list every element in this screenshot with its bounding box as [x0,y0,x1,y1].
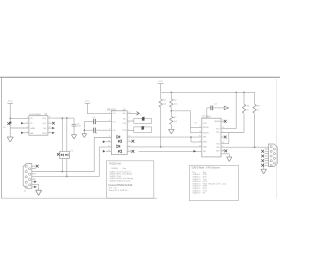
svg-text:NC: NC [43,128,47,130]
svg-text:RIN: RIN [203,142,207,144]
svg-text:3: 3 [27,127,28,129]
svg-text:T2O: T2O [216,132,220,134]
svg-text:T1O: T1O [216,128,220,130]
svg-text:2: 2 [27,122,28,124]
svg-text:R2I: R2I [216,147,220,149]
svg-text:1: 1 [27,117,28,119]
svg-text:Signal Ground: Signal Ground [118,180,131,182]
svg-text:6: 6 [128,122,129,124]
svg-text:T2O: T2O [122,130,126,132]
svg-text:VCC: VCC [158,81,163,83]
svg-text:VI-: VI- [30,123,33,125]
svg-text:T1O: T1O [122,123,126,125]
svg-text:SUB-D: SUB-D [111,168,118,170]
svg-text:1: 1 [109,112,110,114]
svg-text:MAX232: MAX232 [107,108,117,111]
svg-text:1: 1 [140,115,141,117]
svg-text:11: 11 [108,145,110,147]
svg-text:VCC: VCC [203,123,208,125]
svg-text:VCC: VCC [85,101,90,103]
svg-text:VO-: VO- [43,123,47,125]
svg-text:R1I: R1I [216,143,220,145]
svg-text:14: 14 [222,127,224,129]
svg-text:10k: 10k [174,104,177,106]
svg-text:GND: GND [30,128,35,130]
svg-text:RS-IN: RS-IN [203,127,209,129]
svg-text:VO+: VO+ [42,118,47,120]
svg-text:4: 4 [27,131,28,133]
svg-text:8: 8 [109,136,110,138]
svg-text:Sig.: Sig. [123,168,127,170]
svg-text:1k: 1k [257,110,259,112]
svg-text:EN: EN [30,133,33,135]
svg-text:13: 13 [108,150,110,152]
svg-text:1k: 1k [246,110,248,112]
svg-text:Stand: V1.0 SUB-D9: Stand: V1.0 SUB-D9 [109,189,129,192]
svg-text:SUB-D Male - 9 Pol Stecker: SUB-D Male - 9 Pol Stecker [191,167,220,170]
svg-text:13: 13 [199,145,201,147]
svg-text:VS-: VS- [123,118,127,120]
svg-text:SHDN: SHDN [214,121,220,123]
svg-text:RIN: RIN [203,147,207,149]
svg-text:10: 10 [108,140,110,142]
svg-text:VOS: VOS [42,133,47,135]
svg-text:7: 7 [222,131,223,133]
svg-text:2: 2 [200,126,201,128]
svg-text:3: 3 [109,120,110,122]
svg-text:C1-: C1- [112,121,116,123]
svg-text:VCC: VCC [8,101,13,103]
svg-text:4: 4 [109,129,110,131]
svg-text:RS232 Intf.: RS232 Intf. [110,162,122,165]
svg-text:2: 2 [128,117,129,119]
svg-text:6: 6 [200,131,201,133]
svg-text:100n: 100n [77,126,81,128]
svg-text:15: 15 [199,135,201,137]
svg-text:DCP010505: DCP010505 [29,114,42,116]
svg-text:10k: 10k [163,104,166,106]
svg-text:SUB-D 9: SUB-D 9 [193,193,202,195]
svg-text:10k: 10k [174,121,177,123]
svg-text:RS-IN: RS-IN [203,132,209,134]
svg-text:8: 8 [200,141,201,143]
